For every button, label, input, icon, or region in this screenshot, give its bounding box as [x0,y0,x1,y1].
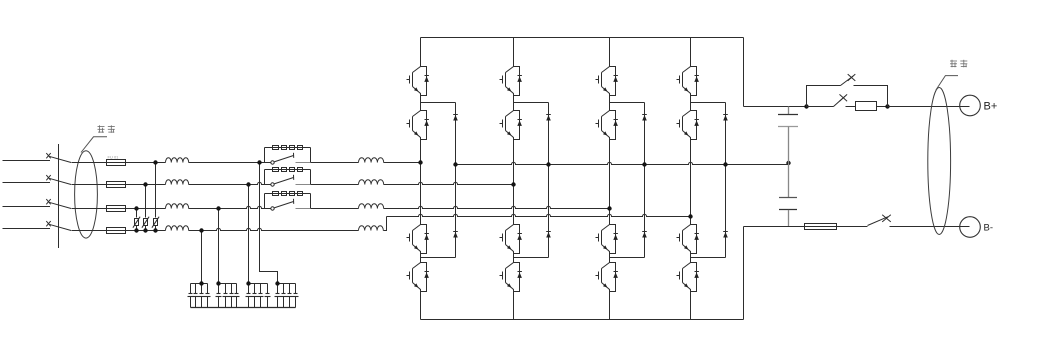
svg-text:FU 01: FU 01 [108,155,120,160]
svg-text:B-: B- [984,223,994,234]
svg-text:B+: B+ [984,101,998,113]
